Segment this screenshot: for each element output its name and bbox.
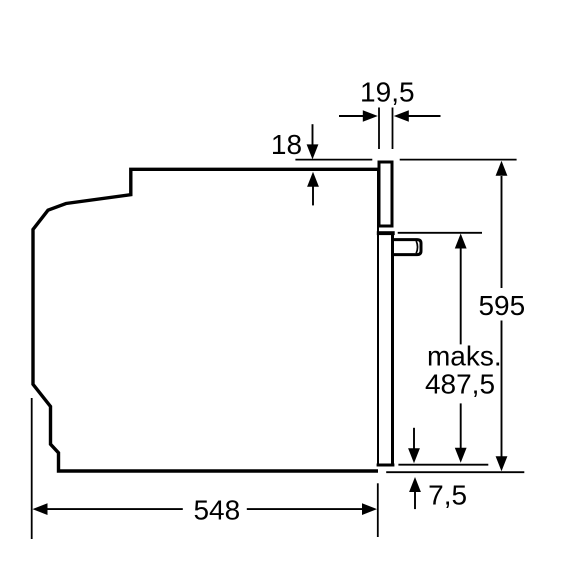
dim 19,5 extension line left xyxy=(378,108,380,150)
latch pin xyxy=(394,240,422,255)
door bottom edge xyxy=(377,464,395,467)
dim 19,5 extension line right xyxy=(392,108,394,150)
svg-text:595: 595 xyxy=(478,290,525,321)
dim maks line lower xyxy=(460,403,462,449)
svg-text:487,5: 487,5 xyxy=(425,369,495,400)
dim maks up arrow xyxy=(455,234,467,249)
dim 7,5 up arrow xyxy=(414,490,416,509)
oven front face line xyxy=(377,169,379,464)
door bracket bar xyxy=(377,231,395,235)
dim 548 line left segment xyxy=(46,508,183,510)
dim maks down arrow xyxy=(455,448,467,463)
dim 548 left extension line xyxy=(31,398,33,539)
dim maks line upper xyxy=(460,248,462,345)
door upper panel xyxy=(379,162,392,226)
dim 548 right extension line xyxy=(377,483,379,537)
svg-text:19,5: 19,5 xyxy=(360,77,415,108)
oven body outline xyxy=(33,169,378,471)
dim 19,5 right arrow xyxy=(408,115,441,117)
latch pin inner arc xyxy=(416,241,417,253)
svg-text:maks.: maks. xyxy=(427,341,502,372)
dim 7,5 down arrow xyxy=(413,428,415,450)
dim 548 left arrow xyxy=(33,503,48,515)
dim 548 line right segment xyxy=(247,508,364,510)
dim 595 up arrow xyxy=(496,161,508,176)
dim 595 line lower xyxy=(501,321,503,458)
bottom line oven level xyxy=(386,471,524,473)
dim 18 up arrow xyxy=(312,186,314,205)
dim 18 down arrow xyxy=(312,124,314,146)
svg-text:18: 18 xyxy=(271,129,302,160)
top extension line right segment xyxy=(400,159,517,161)
maks extension line xyxy=(398,232,482,234)
dim 595 line upper xyxy=(501,176,503,288)
svg-text:548: 548 xyxy=(193,495,240,526)
dim 595 down arrow xyxy=(496,456,508,471)
svg-text:7,5: 7,5 xyxy=(428,480,467,511)
dim 548 right arrow xyxy=(362,503,377,515)
top extension line left segment xyxy=(295,159,372,161)
door lower right edge xyxy=(391,235,394,464)
bottom line door level xyxy=(398,464,488,466)
dim 19,5 left arrow xyxy=(339,115,364,117)
